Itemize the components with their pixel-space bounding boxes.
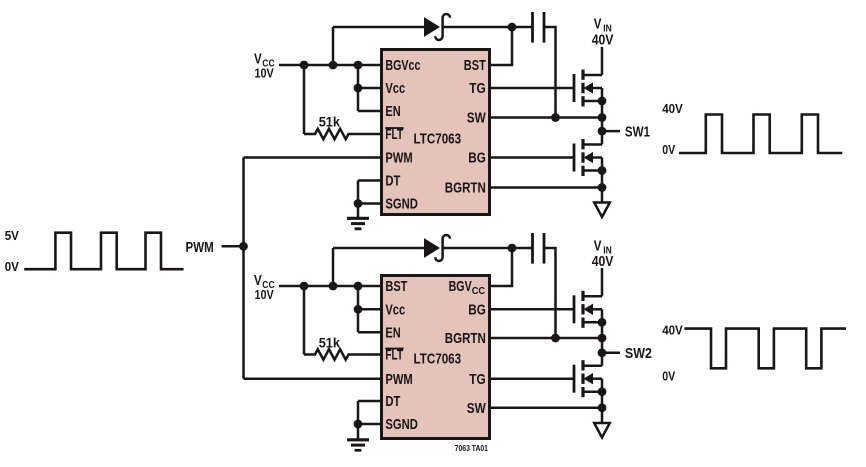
svg-text:SGND: SGND (385, 196, 418, 213)
svg-text:DT: DT (385, 393, 400, 410)
svg-text:TG: TG (469, 80, 486, 97)
svg-text:0V: 0V (5, 260, 20, 274)
svg-text:EN: EN (385, 103, 400, 120)
svg-text:51k: 51k (319, 335, 341, 350)
svg-text:SW: SW (467, 110, 487, 127)
svg-text:40V: 40V (662, 102, 683, 116)
svg-text:PWM: PWM (186, 239, 214, 256)
svg-text:40V: 40V (592, 32, 614, 49)
svg-text:PWM: PWM (385, 150, 412, 167)
svg-text:10V: 10V (255, 288, 275, 302)
svg-text:51k: 51k (319, 115, 341, 130)
svg-text:40V: 40V (592, 253, 614, 270)
svg-text:BGRTN: BGRTN (445, 180, 486, 197)
svg-text:EN: EN (385, 325, 400, 342)
svg-text:BGVcc: BGVcc (385, 57, 420, 74)
svg-text:V: V (254, 51, 262, 68)
svg-text:0V: 0V (662, 143, 676, 157)
svg-text:BG: BG (468, 150, 486, 167)
svg-text:LTC7063: LTC7063 (414, 351, 462, 368)
svg-text:PWM: PWM (385, 371, 412, 388)
svg-text:7063 TA01: 7063 TA01 (455, 444, 489, 453)
svg-text:V: V (594, 15, 602, 32)
svg-text:V: V (594, 237, 602, 254)
svg-text:SW2: SW2 (625, 345, 652, 362)
svg-text:LTC7063: LTC7063 (414, 131, 462, 148)
svg-text:0V: 0V (662, 369, 676, 383)
svg-text:BGV: BGV (449, 278, 472, 295)
svg-text:5V: 5V (5, 229, 20, 243)
svg-text:V: V (254, 272, 262, 289)
svg-text:Vcc: Vcc (385, 80, 405, 97)
svg-text:SGND: SGND (385, 416, 418, 433)
svg-text:40V: 40V (662, 323, 683, 337)
svg-text:SW: SW (467, 400, 487, 417)
svg-text:BG: BG (468, 302, 486, 319)
svg-text:TG: TG (469, 371, 486, 388)
svg-text:CC: CC (472, 285, 486, 297)
svg-text:BST: BST (385, 278, 407, 295)
svg-text:10V: 10V (255, 66, 275, 80)
svg-text:Vcc: Vcc (385, 302, 405, 319)
svg-text:BST: BST (464, 57, 486, 74)
svg-text:DT: DT (385, 173, 400, 190)
svg-text:BGRTN: BGRTN (445, 330, 486, 347)
svg-text:SW1: SW1 (625, 124, 650, 141)
